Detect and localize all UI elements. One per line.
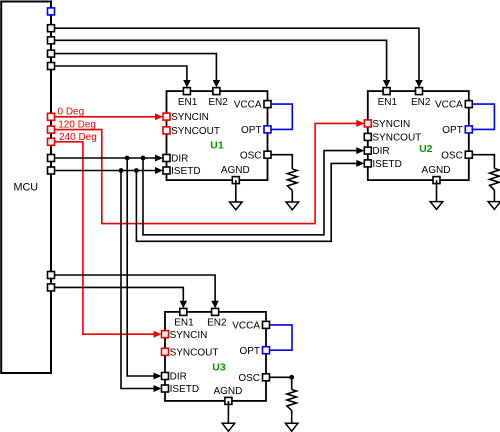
MCU block: [1, 2, 51, 374]
svg-text:U3: U3: [212, 361, 226, 373]
resistor R2: [490, 169, 500, 191]
arrow into U3 ISETD: [154, 385, 162, 392]
U2 pin OPT: [442, 125, 472, 136]
svg-text:DIR: DIR: [372, 146, 389, 157]
wire R1 to ground: [291, 191, 293, 203]
wire MCU to U3 EN1: [54, 287, 183, 301]
wire MCU DIR to U1 DIR: [54, 157, 156, 159]
U2 pin AGND: [422, 165, 451, 184]
svg-text:SYNCIN: SYNCIN: [171, 112, 209, 123]
U3 pin SYNCOUT: [162, 347, 219, 358]
wire U2 VCCA-OPT loop (blue): [472, 104, 494, 129]
wire ISETD branch to U3 ISETD: [121, 171, 154, 389]
svg-text:EN2: EN2: [207, 318, 227, 329]
arrow into U1 EN1: [183, 80, 191, 88]
svg-text:SYNCOUT: SYNCOUT: [171, 126, 220, 137]
MCU pin DIR: [48, 155, 55, 162]
junction dot U3 OSC: [289, 375, 294, 380]
U1 pin AGND: [221, 165, 250, 184]
U2 pin EN2: [411, 88, 431, 108]
svg-text:ISETD: ISETD: [372, 159, 401, 170]
svg-text:U1: U1: [210, 140, 224, 152]
wire MCU to U2 EN2: [54, 28, 419, 81]
ground below R3: [285, 423, 298, 431]
U2 pin VCCA: [435, 100, 472, 111]
MCU pin to U2 EN2: [48, 25, 55, 32]
U3 pin SYNCIN: [162, 330, 208, 341]
wire U3 AGND to ground: [227, 401, 229, 423]
arrow into U2 ISETD: [356, 160, 364, 167]
U1 pin SYNCIN: [163, 112, 209, 123]
svg-text:DIR: DIR: [171, 154, 188, 165]
svg-text:EN1: EN1: [378, 97, 398, 108]
U3 pin OPT: [239, 346, 269, 357]
MCU pin ISETD: [48, 167, 55, 174]
svg-text:OSC: OSC: [238, 373, 260, 384]
wire ISETD branch to U2 ISETD: [136, 163, 357, 241]
U2 pin ISETD: [364, 159, 402, 170]
svg-text:ISETD: ISETD: [170, 384, 199, 395]
wire U1 VCCA-OPT loop (blue): [271, 104, 292, 129]
wire U1 AGND to ground: [235, 180, 237, 202]
arrow into U1 EN2: [213, 80, 221, 88]
wire U2 OSC to resistor: [472, 155, 494, 169]
MCU pin 240 Deg (red): [48, 138, 55, 145]
U1 pin OPT: [241, 125, 271, 136]
arrow into U2 DIR: [356, 147, 364, 154]
svg-text:VCCA: VCCA: [232, 321, 260, 332]
svg-text:AGND: AGND: [422, 165, 451, 176]
MCU pin 120 Deg (red): [48, 126, 55, 133]
U1 pin ISETD: [163, 166, 201, 177]
U3 pin EN1: [174, 308, 194, 328]
U1 pin DIR: [163, 154, 188, 165]
U3 pin AGND: [213, 386, 242, 405]
wire MCU to U1 EN2: [54, 54, 216, 81]
svg-text:EN2: EN2: [208, 97, 228, 108]
svg-text:OSC: OSC: [240, 150, 262, 161]
op-amp U1 body: [167, 91, 268, 180]
arrow into U3 EN1: [180, 301, 188, 309]
svg-text:DIR: DIR: [170, 372, 187, 383]
ground below R1: [286, 202, 299, 210]
MCU pin 0 Deg (red): [48, 113, 55, 120]
U2 pin SYNCOUT: [364, 133, 421, 144]
wire U2 AGND to ground: [436, 180, 438, 202]
wire MCU to U1 EN1: [54, 66, 187, 81]
svg-text:ISETD: ISETD: [171, 166, 200, 177]
MCU pin to U1 EN2: [48, 50, 55, 57]
arrow into U3 DIR: [154, 373, 162, 380]
wire DIR branch to U2 DIR: [143, 151, 357, 235]
U2 pin DIR: [364, 146, 389, 157]
arrow into U3 EN2: [211, 301, 219, 309]
svg-text:OPT: OPT: [241, 125, 262, 136]
wire MCU ISETD to U1 ISETD: [54, 170, 156, 172]
ground below U3 AGND: [222, 423, 235, 431]
ground below U1 AGND: [230, 202, 243, 210]
MCU pin to U3 EN2: [48, 272, 55, 279]
svg-text:VCCA: VCCA: [234, 100, 262, 111]
wire DIR branch to U3 DIR: [127, 158, 154, 376]
svg-text:SYNCIN: SYNCIN: [170, 330, 208, 341]
U2 pin SYNCIN: [364, 119, 410, 130]
arrow into U2 SYNCIN (red): [356, 120, 364, 127]
arrow into U2 EN2: [415, 80, 423, 88]
wire U1 OSC to resistor: [271, 155, 292, 169]
U2 pin EN1: [378, 88, 398, 108]
wire MCU to U3 EN2: [54, 275, 215, 302]
svg-text:0 Deg: 0 Deg: [58, 107, 85, 118]
wire 0 Deg to U1 SYNCIN (red): [54, 116, 156, 118]
ground below U2 AGND: [430, 202, 443, 210]
svg-text:EN2: EN2: [411, 97, 431, 108]
wire 120 Deg to U2 SYNCIN (red): [54, 123, 357, 223]
svg-text:120 Deg: 120 Deg: [58, 119, 96, 130]
U1 pin SYNCOUT: [163, 126, 220, 137]
junction dot DIR/U3: [125, 156, 130, 161]
svg-text:EN1: EN1: [178, 97, 198, 108]
U1 pin OSC: [240, 150, 271, 161]
svg-text:OPT: OPT: [239, 346, 260, 357]
svg-text:AGND: AGND: [221, 165, 250, 176]
svg-text:VCCA: VCCA: [435, 100, 463, 111]
U1 pin EN1: [178, 88, 198, 108]
svg-text:AGND: AGND: [213, 386, 242, 397]
U3 pin ISETD: [162, 384, 200, 395]
op-amp U2 body: [368, 91, 469, 180]
U2 pin OSC: [441, 150, 472, 161]
svg-text:OSC: OSC: [441, 150, 463, 161]
wire 240 Deg to U3 SYNCIN (red): [54, 142, 154, 334]
wire R2 to ground: [493, 190, 495, 202]
arrow into U2 EN1: [383, 80, 391, 88]
svg-text:SYNCOUT: SYNCOUT: [170, 347, 219, 358]
MCU pin to U1 EN1: [48, 63, 55, 70]
arrow into U1 DIR: [155, 155, 163, 162]
U3 pin VCCA: [232, 321, 269, 332]
wire U3 OSC to resistor: [270, 377, 292, 389]
U3 pin DIR: [162, 372, 187, 383]
svg-text:MCU: MCU: [14, 182, 39, 194]
svg-text:SYNCIN: SYNCIN: [372, 119, 410, 130]
resistor R1: [288, 169, 298, 191]
MCU pin to U2 EN1: [48, 37, 55, 44]
junction dot ISETD/U2: [134, 168, 139, 173]
svg-text:EN1: EN1: [174, 318, 194, 329]
ground below R2: [488, 202, 500, 210]
U1 pin EN2: [208, 88, 228, 108]
U3 pin OSC: [238, 373, 269, 384]
MCU pin to U3 EN1: [48, 284, 55, 291]
junction dot DIR/U2: [141, 156, 146, 161]
svg-text:SYNCOUT: SYNCOUT: [372, 133, 421, 144]
svg-text:U2: U2: [419, 143, 433, 155]
U1 pin VCCA: [234, 100, 271, 111]
svg-text:OPT: OPT: [442, 125, 463, 136]
arrow into U1 SYNCIN (red): [155, 113, 163, 120]
wire R3 to ground: [291, 411, 293, 424]
arrow into U1 ISETD: [155, 167, 163, 174]
junction dot ISETD/U3: [119, 168, 124, 173]
wire U3 VCCA-OPT loop (blue): [270, 325, 293, 350]
MCU pin P0 (blue, unconnected): [48, 8, 55, 15]
op-amp U3 body: [165, 312, 266, 401]
arrow into U3 SYNCIN (red): [154, 331, 162, 338]
resistor R3: [287, 390, 297, 411]
wire MCU to U2 EN1: [54, 40, 386, 81]
U3 pin EN2: [207, 308, 227, 328]
